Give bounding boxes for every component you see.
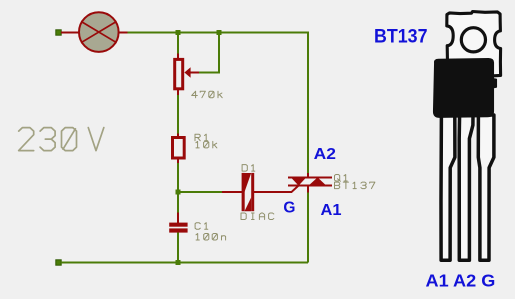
wire top horizontal (lamp to right corner) — [128, 32, 310, 34]
C1 value 100n — [196, 234, 226, 241]
diac D1 right bar — [251, 173, 254, 211]
triac Q1 right triangle — [308, 177, 327, 186]
wire left vertical to pot — [177, 35, 179, 54]
TO-220 leg 2 (A2) — [459, 115, 473, 260]
triac Q1 left triangle — [291, 177, 307, 186]
label 230V — [19, 128, 77, 151]
terminal node top-left (mains L) — [56, 30, 61, 35]
wire C1 to bottom rail — [177, 233, 179, 262]
DIAC right pin / gate wire — [254, 191, 292, 193]
pot bottom pin — [177, 90, 179, 95]
R1 top pin — [177, 134, 179, 137]
D1 name — [242, 165, 255, 172]
TO-220 leg 3 (G) — [478, 115, 494, 260]
wire pot to R1 — [177, 95, 179, 134]
svg-text:A1 A2 G: A1 A2 G — [426, 271, 496, 291]
svg-text:BT137: BT137 — [374, 26, 428, 48]
TO-220 body (black) — [434, 59, 497, 117]
R1 name — [195, 134, 208, 141]
TO-220 tab with mounting hole — [447, 12, 501, 76]
diac D1 left bar — [242, 173, 245, 211]
gate diagonal wire — [291, 185, 298, 192]
pot top pin — [177, 54, 179, 59]
triac Q1 bottom rail — [288, 185, 332, 187]
wire R1 to node A — [177, 163, 179, 190]
R1 bottom pin — [177, 159, 179, 163]
capacitor C1 bottom plate — [169, 228, 187, 232]
Q1 value BT137 — [335, 182, 375, 189]
potentiometer R2 470k body — [175, 59, 183, 88]
triac Q1 A1 pin — [307, 186, 309, 193]
wire node A to C1 — [177, 195, 179, 213]
junction top at pot branch — [175, 30, 180, 35]
junction bottom at C1 — [175, 260, 180, 265]
Q1 name — [335, 175, 348, 182]
R1 value 10k — [196, 141, 217, 148]
lamp pin right — [119, 32, 128, 34]
wire node A to DIAC — [181, 191, 223, 193]
lamp LA1 (bulb circle) — [79, 12, 119, 52]
triac Q1 A2 pin — [307, 173, 309, 178]
wire bottom horizontal rail — [61, 262, 308, 264]
lamp pin left — [61, 32, 79, 34]
wire wiper vertical up — [218, 33, 220, 73]
wire wiper horizontal — [199, 72, 220, 74]
D1 value DIAC — [241, 213, 274, 220]
pot wiper arrow — [184, 67, 190, 78]
terminal node bottom-left (mains N) — [56, 260, 61, 265]
wire right vertical upper (to triac A2) — [307, 33, 309, 174]
TO-220 mounting hole — [461, 28, 485, 52]
diac D1 top triangle — [245, 173, 252, 192]
diac D1 bottom triangle — [245, 197, 252, 211]
junction top at wiper branch — [216, 30, 221, 35]
svg-text:A1: A1 — [321, 202, 342, 219]
svg-text:A2: A2 — [314, 146, 336, 163]
resistor R1 body — [173, 138, 185, 159]
DIAC left pin — [222, 191, 242, 193]
C1 name — [195, 223, 208, 230]
TO-220 leg 1 (A1) — [441, 115, 455, 260]
svg-text:G: G — [283, 199, 295, 216]
value 470k — [192, 91, 223, 98]
pot wiper pin — [190, 72, 199, 74]
triac Q1 top rail — [288, 177, 332, 179]
capacitor C1 top plate — [169, 223, 187, 227]
junction node A (R1/C1/DIAC) — [175, 189, 180, 194]
wire right vertical lower (triac A1 to bottom rail) — [307, 192, 309, 263]
lamp X cross — [81, 21, 117, 42]
C1 top pin — [177, 213, 179, 224]
